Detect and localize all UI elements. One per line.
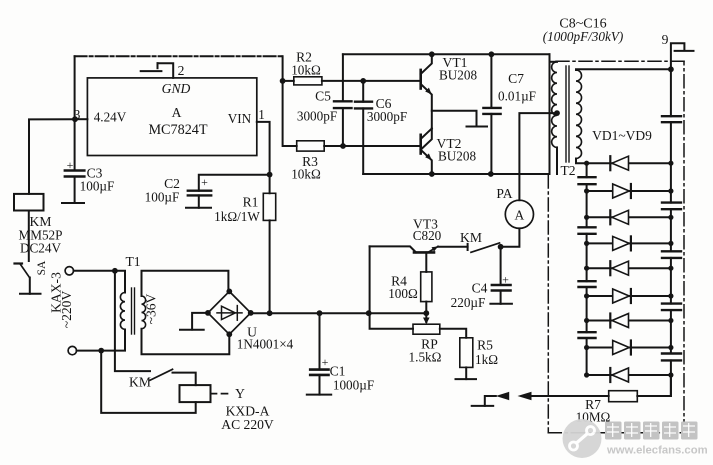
svg-text:0.01µF: 0.01µF <box>498 89 536 104</box>
transformer T1 secondary winding ~36V <box>142 296 146 329</box>
wire: T2 secondary top to HV rail <box>576 68 671 71</box>
svg-text:4.24V: 4.24V <box>94 110 127 125</box>
diode VD6 row 6 <box>584 289 674 303</box>
capacitor C3 100uF <box>65 119 85 203</box>
svg-text:Y: Y <box>235 386 245 401</box>
svg-text:BU208: BU208 <box>439 68 478 83</box>
svg-text:3000pF: 3000pF <box>297 109 337 124</box>
wire: R4 bottom to RP wiper <box>423 302 430 325</box>
node: C6 top junction <box>360 78 366 84</box>
transformer T1 core <box>132 288 135 334</box>
bridge inner diode symbol <box>217 306 242 321</box>
svg-text:220µF: 220µF <box>451 295 486 310</box>
terminal: mains L circle <box>65 267 73 275</box>
wire: R7 feedback line with arrow <box>518 392 609 400</box>
diode VD3 row 3 <box>584 210 674 224</box>
svg-text:SA: SA <box>36 260 48 275</box>
capacitor C10 (right column) <box>662 203 681 210</box>
wire: RP right end to R5 <box>440 329 466 338</box>
svg-text:T2: T2 <box>560 163 575 178</box>
capacitor C14 (right column) <box>662 304 681 311</box>
node: C7 bottom on bottom rail <box>488 171 494 177</box>
node: bridge top vertex <box>226 289 232 295</box>
diode VD2 row 2 <box>584 184 674 198</box>
capacitor C1 1000uF <box>310 313 328 394</box>
wire: right rail bottom to R7 <box>637 375 671 396</box>
svg-text:(1000pF/30kV): (1000pF/30kV) <box>543 29 624 44</box>
capacitor C16 (right column) <box>662 354 681 361</box>
node: bridge right vertex <box>248 310 254 316</box>
relay coil KXD-A AC220V <box>180 385 211 402</box>
svg-text:10kΩ: 10kΩ <box>291 167 321 182</box>
relay coil KM MM52P DC24V <box>14 194 44 211</box>
svg-text:www.elecfans.com: www.elecfans.com <box>606 445 708 457</box>
meter PA ammeter circle <box>505 200 533 228</box>
node: R2 left junction <box>280 78 286 84</box>
watermark CJK pseudo-glyphs <box>605 422 698 440</box>
node: pin 3 junction <box>72 116 78 122</box>
wire: meter bottom to C4 node <box>501 228 520 246</box>
svg-text:C7: C7 <box>508 71 524 86</box>
svg-text:KM: KM <box>460 230 482 245</box>
node: R4/RP wiper on DC line <box>423 310 429 316</box>
svg-text:A: A <box>172 105 182 120</box>
transistor VT3 C820 <box>370 246 438 272</box>
wire: dash-dot link pin3 node up and right to R2/R3 rail <box>74 56 76 119</box>
wire: pin 1 VIN to R1 <box>257 122 270 193</box>
svg-text:C5: C5 <box>315 89 331 104</box>
transformer T1 primary winding <box>120 293 125 330</box>
svg-text:R1: R1 <box>243 195 259 210</box>
svg-text:C1: C1 <box>330 364 346 379</box>
wire: ladder right rail segments <box>670 69 672 396</box>
wire: KM coil to SA switch <box>28 211 30 262</box>
transformer T2 primary winding <box>552 62 557 148</box>
capacitor C9 (left column) <box>579 177 596 184</box>
switch KM (mains side) <box>115 271 196 385</box>
feedback mating arrow and stub <box>485 392 509 406</box>
svg-text:100µF: 100µF <box>145 190 180 205</box>
svg-text:+: + <box>201 175 208 189</box>
ground chassis bar under C3 <box>62 202 84 204</box>
terminal 9 output hook to chassis <box>671 43 694 69</box>
transformer T2 core <box>566 66 569 162</box>
node: VT3 base branch on DC line <box>366 310 372 316</box>
ground chassis bar under C4 <box>490 303 512 305</box>
wire: T2 primary top stub <box>550 61 558 63</box>
svg-text:KM: KM <box>129 375 151 390</box>
capacitor C4 220uF <box>492 247 511 304</box>
wire: ladder left rail segments <box>586 163 588 375</box>
switch SA <box>15 264 30 294</box>
wire: T1 secondary bottom to bridge AC bottom <box>142 329 230 354</box>
ground chassis bar under R5 <box>456 378 477 380</box>
capacitor C13 (left column) <box>579 281 596 287</box>
wire: VT1/VT2 midpoint to chassis <box>432 111 477 126</box>
node: VT2 emitter on bottom rail <box>429 171 435 177</box>
svg-text:100Ω: 100Ω <box>388 286 418 301</box>
diode VD5 row 5 <box>584 261 674 275</box>
capacitor C15 (left column) <box>579 332 596 338</box>
boundary: HV cage dash-dot frame <box>548 61 684 432</box>
wire: R2/R3 left rail <box>283 56 297 146</box>
watermark logo circle <box>563 419 602 458</box>
svg-text:AC 220V: AC 220V <box>221 417 274 432</box>
capacitor C5 3000pF <box>334 54 352 146</box>
svg-text:DC24V: DC24V <box>20 241 62 256</box>
wire: VT3 emitter to KM switch <box>438 246 468 248</box>
svg-text:GND: GND <box>162 81 191 96</box>
diode VD8 row 8 <box>584 341 674 355</box>
ground chassis bar under C1 <box>307 394 331 396</box>
switch KM (meter side) <box>468 243 500 252</box>
wire: T2 primary bottom to rail <box>556 147 558 174</box>
wire: bottom emitter rail <box>363 173 549 175</box>
diode VD1 row 1 <box>584 156 674 170</box>
node: C1 tap on DC line <box>317 310 323 316</box>
wire: N terminal to T1 primary bottom <box>77 330 126 351</box>
wire: VT3 base branch from DC line <box>369 246 371 313</box>
label lead dashes to Y <box>211 393 233 395</box>
svg-text:PA: PA <box>496 186 512 201</box>
resistor R2 10k <box>283 77 322 85</box>
svg-text:1.5kΩ: 1.5kΩ <box>409 350 442 365</box>
node: N wire junction <box>98 348 104 354</box>
ground chassis symbol at pin 2 <box>141 63 162 71</box>
node: C4/KM junction <box>498 244 504 250</box>
svg-text:9: 9 <box>662 32 669 47</box>
node: T2 feedback tap <box>554 110 560 116</box>
ground chassis bar at feedback stub <box>472 405 494 407</box>
wire: RP left end to DC node <box>370 313 413 329</box>
svg-text:VD1~VD9: VD1~VD9 <box>592 128 652 143</box>
svg-text:C820: C820 <box>413 228 442 243</box>
capacitor C11 (left column) <box>579 227 596 234</box>
svg-text:A: A <box>515 208 525 223</box>
wire: top supply rail <box>343 53 550 55</box>
transistor VT1 BU208 <box>421 54 432 128</box>
diode VD9 row 9 <box>584 368 674 382</box>
ground chassis bar under C2 <box>186 207 211 209</box>
svg-text:3: 3 <box>74 107 81 122</box>
svg-text:100µF: 100µF <box>80 179 115 194</box>
node: bridge left vertex <box>205 310 211 316</box>
transformer T2 secondary winding <box>576 70 582 158</box>
node: C5 bottom junction <box>340 143 346 149</box>
bridge rectifier U 1N4001x4 diamond <box>208 291 251 334</box>
node: HV output top junction <box>668 66 674 72</box>
wire: T2 left return vertical <box>549 54 551 174</box>
resistor R7 10M <box>609 391 638 402</box>
node: VT1 collector on top rail <box>429 51 435 57</box>
capacitor C2 100uF <box>188 175 270 208</box>
resistor R4 100ohm <box>421 272 432 302</box>
svg-text:C4: C4 <box>472 281 488 296</box>
potentiometer RP 1.5k <box>413 324 440 334</box>
terminal: mains N circle <box>68 346 76 354</box>
wire: R2 to VT1 base <box>322 80 421 82</box>
node: L wire junction <box>112 268 118 274</box>
transistor VT2 BU208 <box>421 129 432 175</box>
svg-text:1kΩ/1W: 1kΩ/1W <box>214 209 260 224</box>
wire: KXD-A coil bottom loop to N node <box>101 351 196 413</box>
resistor R1 1k/1W <box>263 193 275 220</box>
capacitor C6 3000pF <box>355 81 372 174</box>
svg-text:T1: T1 <box>125 254 140 269</box>
wire: R3 to VT2 base <box>324 145 421 147</box>
resistor R3 10k <box>297 141 325 151</box>
svg-text:1: 1 <box>258 107 265 122</box>
wire: L terminal to T1 primary top <box>74 271 126 293</box>
svg-text:2: 2 <box>178 63 185 78</box>
wire: T1 secondary top to bridge AC top <box>142 271 229 296</box>
wire: R5 bottom to chassis <box>465 367 467 379</box>
svg-text:10kΩ: 10kΩ <box>291 63 321 78</box>
svg-text:~36V: ~36V <box>144 293 159 324</box>
node: VIN junction at R1 top <box>267 172 273 178</box>
op-amp/regulator U A MC7824T box <box>87 78 256 156</box>
wire: R1 bottom down to DC node line <box>269 220 271 313</box>
svg-text:+: + <box>67 158 74 172</box>
svg-text:1000µF: 1000µF <box>333 378 374 393</box>
diode VD7 row 7 <box>584 314 674 328</box>
diode VD4 row 4 <box>584 236 674 250</box>
svg-text:BU208: BU208 <box>438 149 477 164</box>
svg-text:MC7824T: MC7824T <box>148 122 207 138</box>
wire: pin 3 stub into box <box>75 118 87 120</box>
ground chassis bar at VT midpoint <box>467 126 488 128</box>
capacitor C12 (right column) <box>662 251 681 258</box>
svg-text:+: + <box>502 273 509 287</box>
capacitor C8 (right column top) <box>662 116 681 122</box>
svg-text:+: + <box>322 355 329 369</box>
wire: pin3 node left to KM coil branch <box>29 119 75 194</box>
svg-text:VIN: VIN <box>228 111 252 126</box>
ground chassis bar at bridge <box>180 329 204 331</box>
node: bridge bottom vertex <box>226 331 232 337</box>
svg-text:R5: R5 <box>477 338 493 353</box>
wire: DC node line bridge to RP wiper column <box>251 312 427 314</box>
svg-text:3000pF: 3000pF <box>367 109 407 124</box>
svg-text:1N4001×4: 1N4001×4 <box>237 337 294 352</box>
pin 2 lead of MC7824T <box>158 63 174 78</box>
capacitor C7 0.01uF <box>483 54 500 174</box>
node: C7 top on top rail <box>489 51 495 57</box>
wire: bridge left vertex to chassis <box>192 313 208 330</box>
wire: PA meter feed from T2 tap <box>519 113 557 200</box>
svg-text:~220V: ~220V <box>59 291 74 329</box>
svg-text:1kΩ: 1kΩ <box>475 352 498 367</box>
node: R1 bottom on DC line <box>267 310 273 316</box>
ground chassis bar under SA <box>20 293 41 295</box>
wire: T2 secondary bottom to ladder left rail <box>576 159 587 164</box>
resistor R5 1k <box>460 338 473 368</box>
